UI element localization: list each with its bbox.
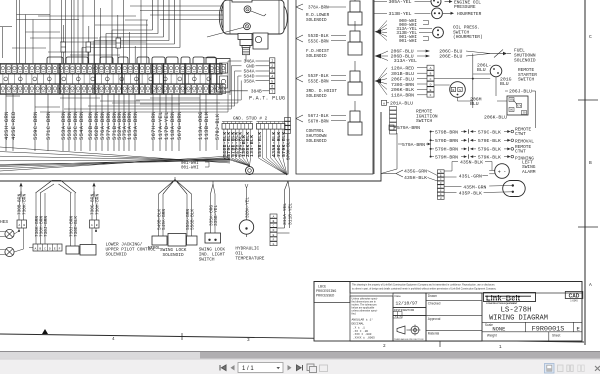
beacon light with 435M-GRN 435P-BLK xyxy=(444,181,525,197)
svg-text:134-BLK: 134-BLK xyxy=(249,135,255,157)
right bundle line xyxy=(381,133,397,174)
Link-Belt logo xyxy=(484,293,536,305)
wire 435L-GRN xyxy=(444,173,488,179)
svg-text:730J-BRN: 730J-BRN xyxy=(44,216,49,237)
connector strip ABCDEF xyxy=(29,244,62,251)
two page layout icon xyxy=(567,365,573,372)
connector stack J1 with feed wires xyxy=(375,65,435,98)
svg-text:378A-BRN: 378A-BRN xyxy=(308,6,329,11)
svg-text:1 / 1: 1 / 1 xyxy=(242,366,254,372)
wire 553D-BLK xyxy=(296,34,346,44)
svg-text:579H-BRN: 579H-BRN xyxy=(435,147,458,153)
svg-text:(HOURMETER): (HOURMETER) xyxy=(453,34,483,40)
zone tick 4/3 xyxy=(181,333,183,340)
wire 579A-BRN to ctwt bracket xyxy=(398,132,431,157)
lower jacking label xyxy=(106,243,156,258)
svg-text:E: E xyxy=(430,89,432,92)
relay K1 206J-BLU xyxy=(470,89,532,121)
close icon xyxy=(595,366,600,371)
svg-text:C: C xyxy=(589,34,592,40)
inner panel box 1 xyxy=(0,0,288,174)
svg-text:384B: 384B xyxy=(251,89,262,95)
svg-text:435L-GRN: 435L-GRN xyxy=(459,173,482,179)
motor terminal stud xyxy=(238,34,252,55)
svg-text:579B-BRN: 579B-BRN xyxy=(435,129,458,135)
svg-text:E: E xyxy=(54,247,56,250)
wire 567J-BLK xyxy=(296,114,346,124)
svg-text:Weight: Weight xyxy=(487,334,497,338)
svg-text:4: 4 xyxy=(271,74,273,78)
svg-text:B: B xyxy=(39,247,41,250)
svg-text:SOLENOID: SOLENOID xyxy=(163,253,184,258)
svg-text:579J-BLK: 579J-BLK xyxy=(215,114,221,140)
svg-text:This drawing is the property o: This drawing is the property of Link-Bel… xyxy=(352,284,495,287)
svg-text:579E-BLK: 579E-BLK xyxy=(478,138,501,144)
svg-text:HOURMETER: HOURMETER xyxy=(457,11,482,17)
connector caps over TB1 xyxy=(47,57,216,64)
svg-text:D: D xyxy=(430,83,432,86)
svg-text:A: A xyxy=(34,247,36,250)
ground stud terminal row group 1 xyxy=(222,122,253,130)
svg-text:311A-YEL: 311A-YEL xyxy=(282,203,288,225)
date cell xyxy=(393,293,426,308)
wire 378A-BRN xyxy=(296,4,346,11)
svg-text:GND. STUD # 2: GND. STUD # 2 xyxy=(233,117,268,122)
svg-text:S: S xyxy=(459,89,461,92)
oil pressure switch group xyxy=(375,19,483,44)
nav last page button xyxy=(297,365,303,371)
svg-text:579A-BRN: 579A-BRN xyxy=(397,125,420,131)
svg-text:LBCE: LBCE xyxy=(318,286,326,290)
distribution cell xyxy=(393,308,426,319)
svg-text:Approval: Approval xyxy=(428,317,441,321)
ground stud terminal row group 2 xyxy=(257,122,286,130)
svg-text:001-WHI: 001-WHI xyxy=(399,39,417,44)
svg-text:B: B xyxy=(430,73,432,76)
fuse F1 xyxy=(61,42,66,52)
svg-text:F: F xyxy=(59,247,61,250)
P.A.T. plug connector pins xyxy=(270,58,275,94)
wire 305A-YEL to engine oil pressure xyxy=(374,0,481,10)
svg-text:30: 30 xyxy=(522,112,526,115)
svg-text:579M-BRN: 579M-BRN xyxy=(435,154,458,160)
motor bolt 2 xyxy=(244,23,251,30)
nav next page button xyxy=(288,365,292,371)
svg-text:12/10/97: 12/10/97 xyxy=(396,301,418,307)
svg-text:313A-YEL: 313A-YEL xyxy=(394,58,417,64)
svg-text:B: B xyxy=(452,89,454,92)
terminal strip TB1 bottom row xyxy=(0,84,226,95)
svg-text:HES: HES xyxy=(0,219,8,225)
svg-text:SOLENOID: SOLENOID xyxy=(306,94,327,99)
svg-text:86: 86 xyxy=(510,109,514,112)
wires 556A 556B group xyxy=(186,194,196,236)
wire bundle above terminal strip xyxy=(0,0,265,64)
motor bolt 1 xyxy=(244,6,251,13)
wire 313B-YEL to hourmeter xyxy=(374,8,482,19)
svg-text:6: 6 xyxy=(271,85,273,89)
wires 730K 730H 730J group xyxy=(35,193,49,244)
solenoid F.D.HOIST xyxy=(306,21,362,59)
solenoid box small xyxy=(66,246,79,254)
svg-text:Sheet: Sheet xyxy=(552,334,560,338)
svg-text:SOLENOID: SOLENOID xyxy=(106,253,127,258)
svg-text:301B-BLU: 301B-BLU xyxy=(391,71,414,77)
connector stack J5 xyxy=(285,118,292,161)
svg-text:201A-BLU: 201A-BLU xyxy=(390,101,413,107)
svg-text:1-0545: 1-0545 xyxy=(570,300,578,303)
svg-text:579A-BRN: 579A-BRN xyxy=(402,142,425,148)
wire 553F-BLK xyxy=(296,74,346,84)
svg-text:SWITCH: SWITCH xyxy=(416,118,433,124)
svg-text:730S-BRN: 730S-BRN xyxy=(391,82,414,88)
svg-text:571C-BRN: 571C-BRN xyxy=(46,111,52,140)
svg-text:001-WHI: 001-WHI xyxy=(181,162,199,166)
svg-text:113B-BLK: 113B-BLK xyxy=(204,111,210,140)
svg-text:ALARM: ALARM xyxy=(522,169,536,175)
svg-text:556B-BLK: 556B-BLK xyxy=(190,209,195,230)
svg-text:579K-BLK: 579K-BLK xyxy=(287,139,292,160)
svg-text:ANGULAR ± 1°: ANGULAR ± 1° xyxy=(352,318,374,322)
svg-text:435P-BLK: 435P-BLK xyxy=(459,190,482,196)
svg-text:3: 3 xyxy=(271,69,273,73)
page number field xyxy=(238,363,283,373)
fuse holder AB left xyxy=(14,220,27,252)
svg-text:553E-BRN: 553E-BRN xyxy=(308,79,329,84)
svg-text:C: C xyxy=(44,247,46,250)
nested corner wires from PAT labels to left xyxy=(40,61,242,112)
svg-text:206K-BLU: 206K-BLU xyxy=(484,115,507,121)
svg-text:435N-BLK: 435N-BLK xyxy=(460,159,483,165)
group2 fan to box corner xyxy=(259,158,288,175)
svg-text:F: F xyxy=(430,94,432,97)
svg-text:559B-BLK: 559B-BLK xyxy=(257,132,263,157)
svg-text:PROCESSING: PROCESSING xyxy=(316,290,336,294)
limit switch circles xyxy=(0,219,14,257)
svg-text:SOLENOID: SOLENOID xyxy=(306,54,327,59)
svg-text:2: 2 xyxy=(383,344,386,349)
svg-text:567G-BRN: 567G-BRN xyxy=(177,111,183,140)
svg-text:A: A xyxy=(383,102,385,105)
svg-text:to others in part, of design a: to others in part, of design and details… xyxy=(352,288,497,291)
svg-text:fied.: fied. xyxy=(352,313,357,316)
svg-text:SOLENOID: SOLENOID xyxy=(306,18,327,23)
svg-text:435M-GRN: 435M-GRN xyxy=(463,184,486,190)
svg-text:583A-BRN: 583A-BRN xyxy=(133,111,139,140)
svg-text:B: B xyxy=(589,160,592,166)
svg-text:Date: Date xyxy=(395,294,402,298)
wire 579J-BLK xyxy=(215,95,221,150)
terminal strip end block xyxy=(217,59,231,93)
svg-text:SWITCH: SWITCH xyxy=(199,258,215,263)
svg-text:+: + xyxy=(498,169,501,175)
ground stud group1 wire labels xyxy=(222,129,255,158)
wire 384B xyxy=(230,89,269,95)
wires 549B 549A group xyxy=(157,194,167,236)
svg-text:579C-BLK: 579C-BLK xyxy=(478,129,501,135)
svg-text:BLU: BLU xyxy=(477,67,486,73)
svg-text:5: 5 xyxy=(271,80,273,84)
drawn checked approved material cells xyxy=(426,293,482,341)
svg-text:335B-YEL: 335B-YEL xyxy=(214,205,219,226)
connector stack J6 xyxy=(270,214,277,246)
svg-text:567H-BRN: 567H-BRN xyxy=(151,111,157,140)
right section interconnect wires xyxy=(434,54,536,129)
terminal strip TB1 top row xyxy=(0,64,226,75)
svg-text:549A-BRN: 549A-BRN xyxy=(162,209,167,230)
wires 730J 730E group xyxy=(69,193,79,246)
scale and drawing number row xyxy=(482,322,582,333)
svg-text:DECIMAL: DECIMAL xyxy=(352,323,365,326)
svg-text:BLU: BLU xyxy=(500,81,509,87)
svg-text:425H-GRN: 425H-GRN xyxy=(4,111,10,140)
svg-text:001-WHI: 001-WHI xyxy=(181,167,199,171)
title block outline xyxy=(314,282,582,342)
svg-text:SWITCH: SWITCH xyxy=(518,77,535,83)
swing lock solenoid boxes xyxy=(148,234,197,258)
svg-text:554A-BRN: 554A-BRN xyxy=(79,111,85,140)
tolerance notes box xyxy=(350,296,393,341)
svg-text:120A-RED: 120A-RED xyxy=(391,66,414,72)
harness bundle bowtie xyxy=(0,147,230,171)
svg-text:206F-BLU: 206F-BLU xyxy=(391,76,414,82)
fuse F3 xyxy=(116,38,121,48)
connector stack J7 xyxy=(437,170,444,200)
svg-text:PRESSURE: PRESSURE xyxy=(454,4,476,10)
motor mounting bracket xyxy=(253,33,268,49)
hydraulic oil temperature sender xyxy=(235,184,264,262)
wire drops below TB1 with wire number labels xyxy=(4,94,220,152)
svg-text:P.A.T. PLUG: P.A.T. PLUG xyxy=(249,96,285,102)
svg-text:559C-BRN: 559C-BRN xyxy=(33,111,39,140)
solenoid CONTROL xyxy=(306,101,362,144)
third angle projection symbol xyxy=(393,316,426,342)
svg-text:567H-BRN: 567H-BRN xyxy=(308,119,329,124)
svg-text:CTWT: CTWT xyxy=(515,149,526,155)
svg-text:Drawn: Drawn xyxy=(428,294,437,298)
svg-text:1: 1 xyxy=(271,59,273,63)
CAD cell xyxy=(565,292,583,303)
svg-text:3: 3 xyxy=(247,338,250,343)
weight sheet row xyxy=(487,332,561,341)
harness tent 1 xyxy=(36,181,77,194)
nav prev page button xyxy=(231,365,235,371)
single page layout icon selected xyxy=(545,364,555,374)
wire 579A-BRN feed xyxy=(389,125,420,131)
wires 730G-BRN 730H-BRN with up arrow xyxy=(91,183,101,221)
svg-text:CTWT: CTWT xyxy=(515,131,526,137)
sheet bottom border line xyxy=(0,334,584,342)
svg-text:2: 2 xyxy=(271,64,273,68)
solenoid 3RD. D.HOIST xyxy=(306,61,362,99)
two page continuous icon xyxy=(578,365,584,372)
remote ignition switch connector xyxy=(382,100,438,134)
previous view icon xyxy=(307,364,317,373)
sheet right border line xyxy=(578,0,598,345)
svg-text:PROCESSED: PROCESSED xyxy=(316,295,334,299)
svg-text:435H-BLK: 435H-BLK xyxy=(404,175,427,181)
harness tent 2 xyxy=(159,177,192,194)
svg-text:7: 7 xyxy=(271,90,273,94)
svg-text:REMOVAL: REMOVAL xyxy=(515,138,534,144)
svg-text:435G-GRN: 435G-GRN xyxy=(404,169,427,175)
svg-text:206K-BLK: 206K-BLK xyxy=(391,87,414,93)
svg-text:87a: 87a xyxy=(517,105,522,108)
inner panel box 2 xyxy=(296,0,373,174)
svg-text:D: D xyxy=(49,247,51,250)
terminal strip TB1 middle screws xyxy=(3,74,218,84)
svg-text:C: C xyxy=(430,78,432,81)
svg-text:-: - xyxy=(503,169,506,175)
svg-text:358A: 358A xyxy=(243,78,254,84)
svg-text:THIRD ANGLE PROJECTION: THIRD ANGLE PROJECTION xyxy=(394,338,424,341)
starter motor M1 body xyxy=(219,0,287,34)
svg-text:Checked: Checked xyxy=(428,302,441,306)
ignition switch with B S terminals xyxy=(450,82,466,98)
nav first page button xyxy=(220,365,226,371)
svg-text:LS-278H: LS-278H xyxy=(500,307,531,315)
motor leader lines xyxy=(207,11,266,37)
svg-text:BLU: BLU xyxy=(470,101,479,107)
drawing title LS-278H WIRING DIAGRAM xyxy=(482,293,582,341)
ground symbol G1 xyxy=(246,166,254,175)
svg-text:311B-YEL: 311B-YEL xyxy=(288,203,294,225)
remote ctwt removal / pinning rows xyxy=(430,126,535,161)
svg-text:206J-BLU: 206J-BLU xyxy=(509,89,532,95)
terminal strip bold separators xyxy=(60,64,210,95)
svg-text:206E-BLU: 206E-BLU xyxy=(439,54,462,60)
next view icon xyxy=(320,365,328,372)
svg-text:579G-BLK: 579G-BLK xyxy=(478,147,501,153)
svg-text:WIRING DIAGRAM: WIRING DIAGRAM xyxy=(489,315,548,323)
ground stud group2 wire labels xyxy=(257,129,287,158)
continuous layout icon xyxy=(558,365,564,372)
viewer toolbar background xyxy=(0,351,600,374)
LBCE processing stamp xyxy=(314,282,350,303)
wire 001-WHI pair labels xyxy=(181,162,209,171)
svg-text:730E-BLK: 730E-BLK xyxy=(74,216,79,237)
fuse holder AB right xyxy=(90,220,100,244)
svg-text:CAD: CAD xyxy=(569,293,580,299)
outer enclosure box xyxy=(0,112,381,181)
svg-text:313B-YEL: 313B-YEL xyxy=(389,11,412,17)
svg-text:1: 1 xyxy=(499,345,502,350)
svg-text:CONSTRUCTION EQUIPMENT: CONSTRUCTION EQUIPMENT xyxy=(486,303,518,305)
zone marker triangle xyxy=(42,329,48,334)
wire from motor stud xyxy=(203,55,246,61)
left swing alarm horn xyxy=(444,159,536,178)
svg-text:TEMPERATURE: TEMPERATURE xyxy=(235,257,264,262)
wires 730B-BRN 730K-BRN with up arrow xyxy=(18,183,28,221)
remote starter switch xyxy=(473,63,537,88)
wire 311A-YEL / 311B-YEL xyxy=(278,181,294,233)
svg-text:SOLENOID: SOLENOID xyxy=(306,139,327,144)
fan to ground symbol xyxy=(224,158,251,166)
solenoid R.D.LOWER xyxy=(306,0,362,25)
swing lock ind light switch xyxy=(199,181,226,263)
fuel shutdown solenoid group xyxy=(375,48,536,64)
svg-text:SOLENOID: SOLENOID xyxy=(514,57,536,63)
svg-text:F9R0001S: F9R0001S xyxy=(532,325,565,333)
svg-text:.XXXX ± .0005: .XXXX ± .0005 xyxy=(353,336,375,339)
svg-text:Material: Material xyxy=(428,332,440,336)
wires 435G-GRN 435H-BLK xyxy=(381,169,437,182)
svg-text:A: A xyxy=(589,282,592,288)
svg-text:425E-RED: 425E-RED xyxy=(11,111,17,140)
svg-text:GND: GND xyxy=(246,64,255,70)
svg-text:85: 85 xyxy=(510,99,514,102)
svg-text:118A-BRN: 118A-BRN xyxy=(391,93,414,99)
solenoid box large xyxy=(80,245,96,256)
svg-text:118A-BRN: 118A-BRN xyxy=(170,111,176,140)
svg-text:320A-YEL: 320A-YEL xyxy=(245,197,250,218)
svg-text:579D-BRN: 579D-BRN xyxy=(435,138,458,144)
P.A.T. plug wire labels xyxy=(243,59,269,85)
svg-text:A: A xyxy=(430,67,432,70)
zone tick 2/1 xyxy=(439,340,441,347)
svg-text:553C-BRN: 553C-BRN xyxy=(308,39,329,44)
fuse F2 xyxy=(86,42,91,52)
disclaimer text box xyxy=(350,282,582,294)
svg-text:4: 4 xyxy=(112,337,115,342)
svg-text:305A-YEL: 305A-YEL xyxy=(389,0,412,5)
